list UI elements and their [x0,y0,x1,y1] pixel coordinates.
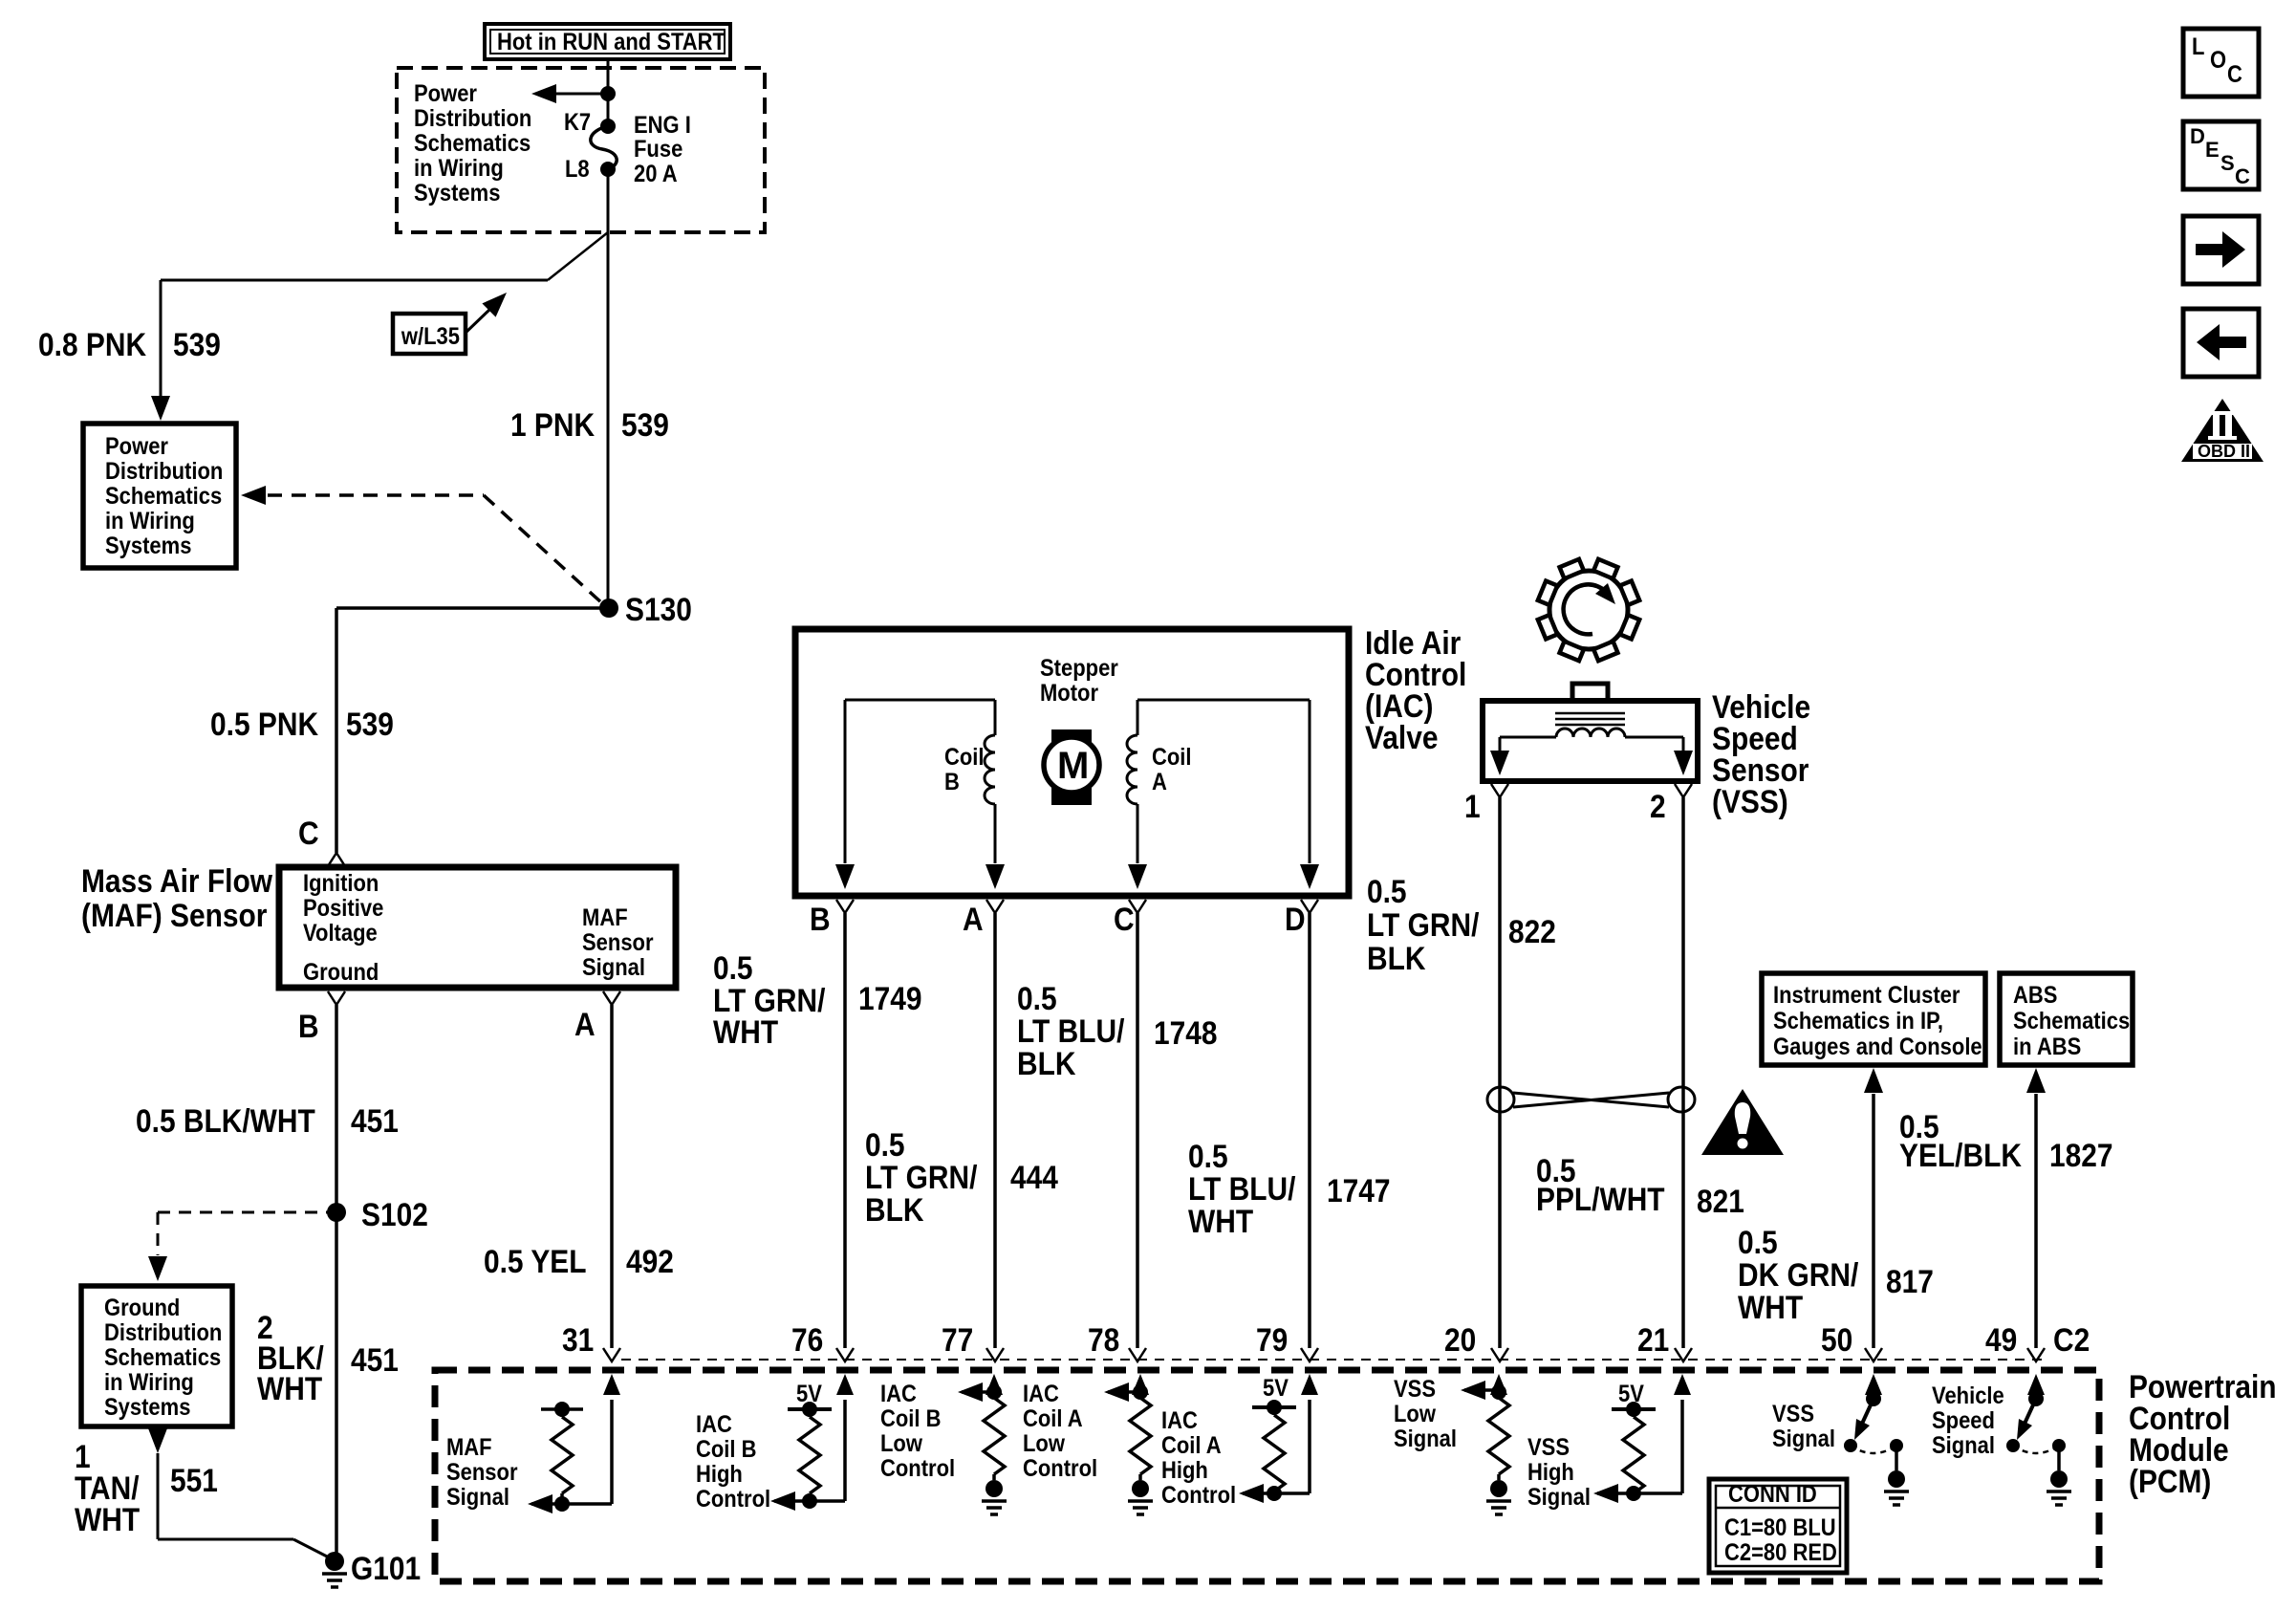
svg-text:0.5 BLK/WHT: 0.5 BLK/WHT [136,1102,315,1139]
svg-text:Schematics: Schematics [104,1344,221,1371]
svg-text:451: 451 [351,1341,399,1378]
PCM internal: IAC coil A low control (pin 78) [1132,1374,1149,1395]
svg-text:2: 2 [1650,788,1666,824]
svg-text:Positive: Positive [303,895,383,922]
svg-text:822: 822 [1508,913,1556,949]
svg-text:Coil A: Coil A [1161,1432,1222,1459]
svg-text:High: High [1161,1457,1208,1484]
svg-text:B: B [298,1008,319,1044]
wire: 0.5 LT BLU/WHT 1747 IAC D to PCM 79 [1308,913,1311,1348]
svg-text:1749: 1749 [858,980,922,1016]
svg-text:LT BLU/: LT BLU/ [1188,1170,1296,1207]
IAC coil B [845,700,995,863]
svg-text:0.5 PNK: 0.5 PNK [210,706,318,742]
svg-text:C: C [2235,164,2250,188]
svg-text:C: C [298,815,319,851]
svg-text:Control: Control [696,1486,770,1513]
icon: back arrow box [2183,309,2259,377]
svg-text:Systems: Systems [104,1394,190,1421]
svg-text:(VSS): (VSS) [1712,783,1788,819]
wire: 0.8 PNK 539 branch to power distribution [161,232,608,398]
svg-text:0.5: 0.5 [1738,1224,1778,1260]
svg-text:Instrument Cluster: Instrument Cluster [1773,982,1960,1009]
wire: feed from Hot in RUN and START into fuse [607,59,610,126]
svg-text:E: E [2205,138,2220,162]
svg-text:Low: Low [1394,1401,1437,1427]
svg-text:DK GRN/: DK GRN/ [1738,1256,1858,1293]
wire: 0.5 BLK/WHT 451 MAF ground to G101 [335,1005,338,1560]
svg-text:WHT: WHT [1188,1203,1254,1239]
icon: DESC box [2183,121,2259,189]
svg-text:YEL/BLK: YEL/BLK [1899,1137,2022,1173]
svg-text:0.5 YEL: 0.5 YEL [484,1243,587,1279]
PCM internal: IAC coil B high control driver (pin 76) [836,1374,854,1395]
svg-text:C1=80 BLU: C1=80 BLU [1724,1514,1836,1541]
svg-text:1747: 1747 [1327,1172,1391,1208]
svg-text:0.5: 0.5 [713,949,753,986]
svg-text:Distribution: Distribution [414,105,531,132]
svg-text:49: 49 [1985,1321,2017,1358]
svg-text:Gauges and Console: Gauges and Console [1773,1034,1982,1060]
svg-text:817: 817 [1886,1263,1934,1299]
svg-text:21: 21 [1637,1321,1669,1358]
svg-text:539: 539 [621,406,669,443]
svg-text:Control: Control [1023,1455,1097,1482]
svg-text:WHT: WHT [713,1013,779,1050]
wire: 0.5 PPL/WHT 821 VSS 2 to PCM 21 [1681,797,1685,1348]
warning caution triangle [1701,1089,1784,1155]
svg-text:821: 821 [1697,1183,1744,1219]
svg-text:1: 1 [1464,788,1481,824]
svg-text:IAC: IAC [1023,1381,1059,1407]
svg-text:Speed: Speed [1932,1407,1995,1434]
dashed reference arrow from S130 to power distribution box [268,493,484,497]
svg-text:M: M [1057,745,1089,787]
svg-text:Stepper: Stepper [1040,655,1118,682]
svg-text:S: S [2220,151,2235,175]
VSS box [1483,701,1698,781]
svg-text:444: 444 [1010,1159,1058,1195]
wire: 1 TAN/WHT 551 from ground distribution to G101 [148,1428,167,1453]
svg-text:Vehicle: Vehicle [1932,1382,2004,1409]
wire: 0.5 DK GRN/WHT 817 PCM 50 to instrument cluster (arrow up) [1864,1068,1883,1093]
svg-text:C: C [2227,61,2242,88]
PCM internal: vehicle speed signal switch (pin 49) [2027,1374,2045,1395]
svg-text:Control: Control [880,1455,955,1482]
svg-text:Signal: Signal [446,1484,509,1511]
VSS pickup core lines [1555,713,1625,725]
svg-text:in Wiring: in Wiring [414,155,504,182]
svg-text:Signal: Signal [1772,1426,1835,1452]
svg-text:Signal: Signal [1932,1432,1995,1459]
svg-text:539: 539 [346,706,394,742]
svg-text:Coil B: Coil B [696,1436,757,1463]
svg-text:C: C [1114,901,1135,937]
svg-text:A: A [1152,769,1167,795]
svg-text:Ground: Ground [303,959,379,986]
svg-text:Distribution: Distribution [104,1319,222,1346]
svg-text:VSS: VSS [1527,1434,1570,1461]
svg-text:WHT: WHT [257,1370,323,1406]
svg-text:PPL/WHT: PPL/WHT [1536,1181,1665,1217]
IAC valve box [795,629,1349,896]
wire: 0.5 YEL 492 MAF signal to PCM pin 31 [610,1005,614,1348]
connector C1/C2 dashed line [621,1359,2046,1361]
wire: 0.5 LT GRN/WHT 1749 IAC B to PCM 76 [843,913,847,1348]
wire: 0.5 YEL/BLK 1827 PCM 49 to ABS (arrow up) [2026,1068,2046,1093]
splice S102 [327,1203,346,1222]
svg-text:1748: 1748 [1154,1014,1218,1051]
fuse block underhood dashed box [397,68,765,232]
icon: OBD II triangle [2181,399,2264,462]
svg-text:LT GRN/: LT GRN/ [865,1159,978,1195]
svg-text:78: 78 [1088,1321,1119,1358]
svg-text:D: D [2190,124,2205,148]
arrow: branch to power distribution schematics (left) [554,93,608,96]
power distribution schematics box (left) [83,424,236,568]
svg-text:L8: L8 [565,156,590,183]
VSS pickup coil [1556,729,1625,737]
svg-text:BLK: BLK [865,1191,923,1228]
svg-text:Voltage: Voltage [303,920,378,947]
PCM internal: VSS low signal (pin 20) [1490,1374,1507,1395]
svg-text:77: 77 [942,1321,973,1358]
svg-text:Signal: Signal [1527,1484,1591,1511]
svg-text:Fuse: Fuse [634,136,682,163]
svg-text:LT BLU/: LT BLU/ [1017,1012,1125,1049]
PCM internal: VSS high signal driver (pin 21) [1674,1374,1691,1395]
splice S130 [599,599,618,618]
svg-text:in Wiring: in Wiring [105,508,195,534]
svg-text:Valve: Valve [1365,719,1439,755]
svg-text:Sensor: Sensor [446,1459,518,1486]
svg-text:in ABS: in ABS [2013,1034,2081,1060]
MAF sensor box [279,867,676,988]
svg-text:ENG I: ENG I [634,112,691,139]
svg-text:1 PNK: 1 PNK [510,406,595,443]
svg-text:K7: K7 [564,109,591,136]
svg-text:0.5: 0.5 [865,1126,905,1163]
svg-text:Mass Air Flow: Mass Air Flow [81,862,272,899]
svg-text:Control: Control [1161,1482,1236,1509]
svg-text:in Wiring: in Wiring [104,1369,194,1396]
IAC coil A [1127,700,1310,863]
svg-text:A: A [963,901,984,937]
icon: forward arrow box [2183,216,2259,284]
svg-text:High: High [696,1461,743,1488]
wire: 0.5 PNK 539 from S130 to MAF pin C [336,608,609,853]
svg-text:D: D [1285,901,1306,937]
svg-text:VSS: VSS [1772,1401,1814,1427]
svg-text:Ignition: Ignition [303,870,379,897]
svg-text:VSS: VSS [1394,1376,1436,1403]
PCM internal: IAC coil B low control (pin 77) [986,1374,1003,1395]
svg-text:O: O [2210,47,2226,74]
svg-text:WHT: WHT [75,1501,141,1537]
svg-text:Motor: Motor [1040,680,1098,707]
svg-text:Schematics: Schematics [414,130,531,157]
svg-text:539: 539 [173,326,221,362]
svg-text:IAC: IAC [1161,1407,1198,1434]
svg-text:MAF: MAF [582,904,628,931]
svg-text:551: 551 [170,1462,218,1498]
svg-text:(PCM): (PCM) [2129,1463,2211,1499]
svg-text:1827: 1827 [2049,1137,2113,1173]
svg-text:ABS: ABS [2013,982,2057,1009]
svg-text:WHT: WHT [1738,1289,1804,1325]
svg-text:B: B [944,769,960,795]
svg-text:S102: S102 [361,1196,428,1232]
dashed reference arrow from S102 to ground distribution box [158,1211,329,1214]
svg-text:A: A [574,1006,596,1042]
svg-text:0.5: 0.5 [1188,1138,1228,1174]
svg-text:w/L35: w/L35 [401,323,460,350]
svg-text:IAC: IAC [880,1381,917,1407]
svg-text:High: High [1527,1459,1574,1486]
PCM internal: IAC coil A high control driver (pin 79) [1301,1374,1318,1395]
svg-text:Schematics: Schematics [105,483,222,510]
ground G101 [325,1552,344,1571]
svg-text:MAF: MAF [446,1434,492,1461]
svg-text:5V: 5V [1263,1375,1289,1402]
PCM dashed box [435,1370,2099,1581]
svg-text:Coil: Coil [944,744,985,771]
svg-text:BLK: BLK [1017,1045,1075,1081]
PCM internal: MAF sensor signal input (pin 31) [603,1374,620,1395]
svg-text:20: 20 [1444,1321,1476,1358]
svg-text:Schematics in IP,: Schematics in IP, [1773,1008,1943,1034]
svg-text:OBD II: OBD II [2198,442,2250,461]
svg-text:Systems: Systems [414,180,500,207]
svg-text:BLK: BLK [1367,940,1425,976]
ground distribution schematics box [81,1286,232,1426]
twisted pair symbol on 822/821 [1487,1087,1695,1112]
svg-text:31: 31 [562,1321,594,1358]
svg-text:Signal: Signal [1394,1426,1457,1452]
wire: 0.5 LT GRN/BLK 822 VSS 1 to PCM 20 [1498,797,1502,1348]
wire: 0.5 LT BLU/BLK 1748 IAC C to PCM 78 [1136,913,1139,1348]
svg-text:79: 79 [1256,1321,1288,1358]
svg-text:50: 50 [1821,1321,1852,1358]
instrument cluster schematics box [1762,973,1985,1065]
svg-text:20 A: 20 A [634,161,678,187]
svg-text:Sensor: Sensor [582,929,654,956]
svg-text:S130: S130 [625,591,692,627]
junction dot on fuse feed [600,86,616,101]
label box: Hot in RUN and START [485,24,730,59]
svg-text:Coil: Coil [1152,744,1192,771]
icon: LOC box [2183,29,2259,97]
svg-text:Distribution: Distribution [105,458,223,485]
w/L35 tag box with arrow [393,314,466,354]
svg-text:Low: Low [1023,1430,1066,1457]
svg-text:(MAF) Sensor: (MAF) Sensor [81,897,267,933]
stepper motor M [1051,729,1092,805]
fuse ENG I 20 A (terminals K7/L8) [600,119,616,134]
PCM internal: VSS signal switch (pin 50) [1865,1374,1882,1395]
svg-text:0.8 PNK: 0.8 PNK [38,326,146,362]
svg-text:Power: Power [414,80,477,107]
VSS gear icon [1538,559,1639,661]
svg-text:492: 492 [626,1243,674,1279]
svg-text:Power: Power [105,433,168,460]
svg-text:Signal: Signal [582,954,645,981]
svg-text:L: L [2192,33,2204,60]
svg-text:LT GRN/: LT GRN/ [1367,906,1480,943]
svg-text:C2: C2 [2053,1321,2090,1358]
wire: 1 PNK 539 fuse output down to S130 [607,169,610,608]
svg-text:B: B [810,901,831,937]
svg-text:Low: Low [880,1430,923,1457]
svg-text:IAC: IAC [696,1411,732,1438]
svg-text:76: 76 [791,1321,823,1358]
svg-text:Coil B: Coil B [880,1405,942,1432]
CONN ID table [1709,1479,1847,1573]
ABS schematics box [2000,973,2133,1065]
svg-text:CONN ID: CONN ID [1728,1481,1817,1508]
svg-text:C2=80 RED: C2=80 RED [1724,1539,1837,1566]
svg-text:Ground: Ground [104,1295,180,1321]
svg-text:451: 451 [351,1102,399,1139]
svg-text:Systems: Systems [105,533,191,559]
wire: 0.5 LT GRN/BLK 444 IAC A to PCM 77 [993,913,997,1348]
VSS mounting tab [1572,684,1608,701]
svg-text:Hot in RUN and START: Hot in RUN and START [497,29,726,55]
svg-text:0.5: 0.5 [1367,873,1407,909]
svg-text:Coil A: Coil A [1023,1405,1083,1432]
svg-text:Schematics: Schematics [2013,1008,2130,1034]
svg-text:0.5: 0.5 [1017,980,1057,1016]
svg-text:G101: G101 [351,1550,421,1586]
